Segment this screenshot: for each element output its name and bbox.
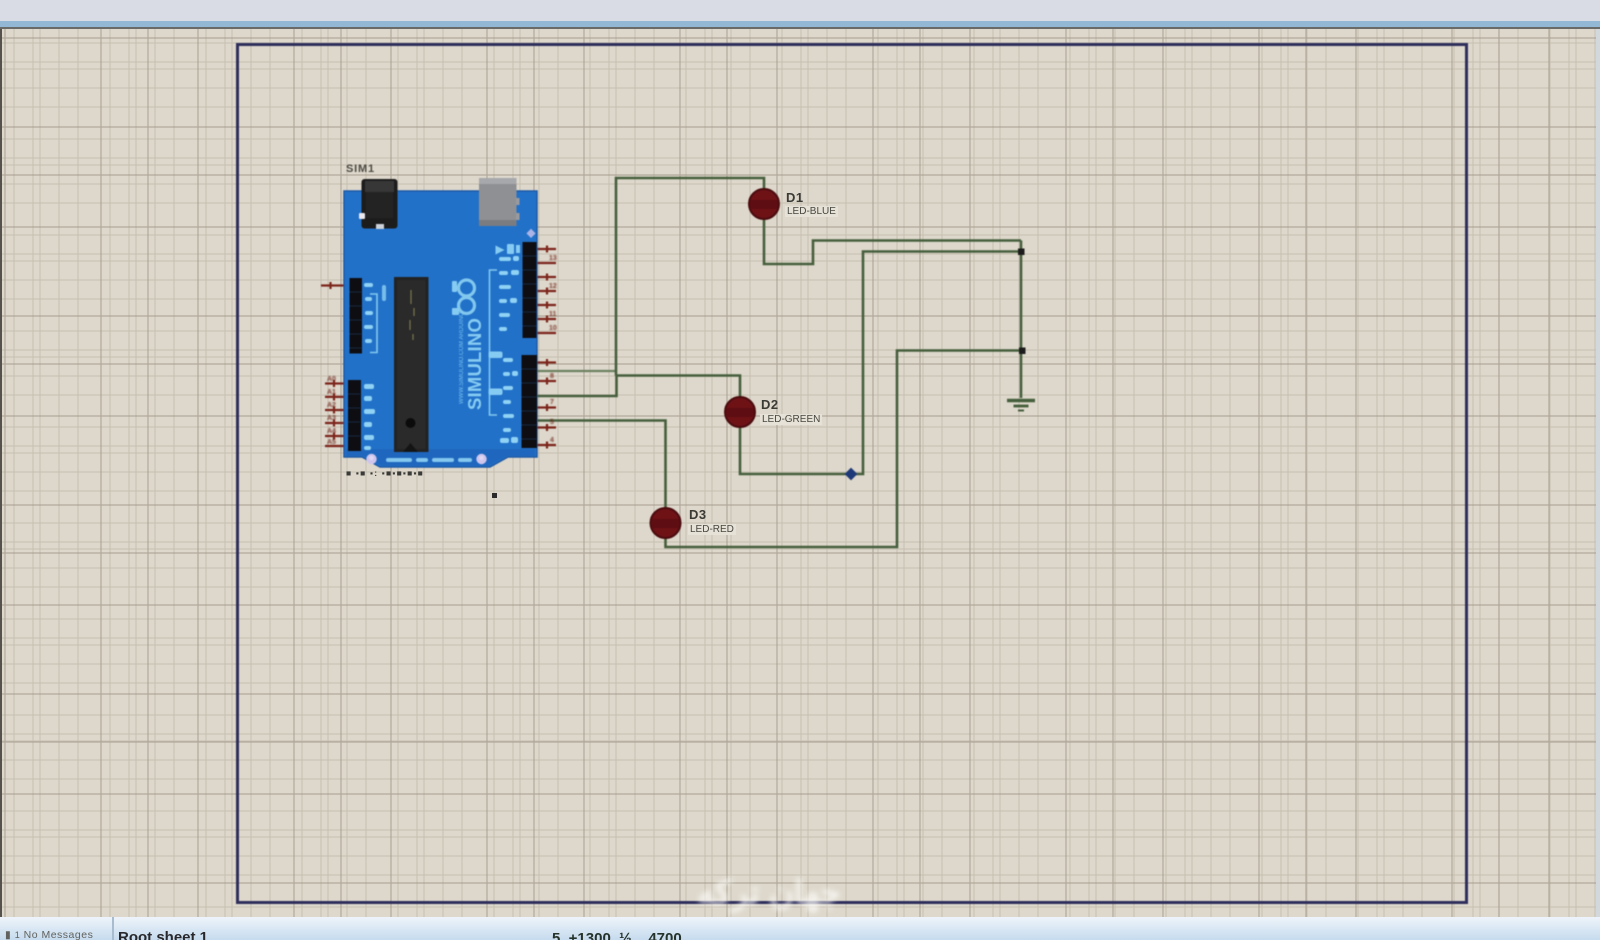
svg-text:WWW.SIMULINO.COM ARDUINO: WWW.SIMULINO.COM ARDUINO [459,312,465,404]
svg-text:13: 13 [549,255,557,262]
svg-text:11: 11 [549,311,557,318]
svg-text:A4: A4 [327,428,336,435]
svg-text:8: 8 [550,373,554,380]
svg-text:A1: A1 [327,389,336,396]
svg-text:7: 7 [550,399,554,406]
svg-text:A3: A3 [327,415,336,422]
svg-text:4: 4 [550,437,554,444]
svg-text:10: 10 [549,325,557,332]
svg-text:12: 12 [549,283,557,290]
svg-text:A5: A5 [327,439,336,446]
svg-text:SIMULINO: SIMULINO [464,318,485,410]
svg-text:5: 5 [550,419,554,426]
svg-text:A0: A0 [327,376,336,383]
svg-text:A2: A2 [327,402,336,409]
